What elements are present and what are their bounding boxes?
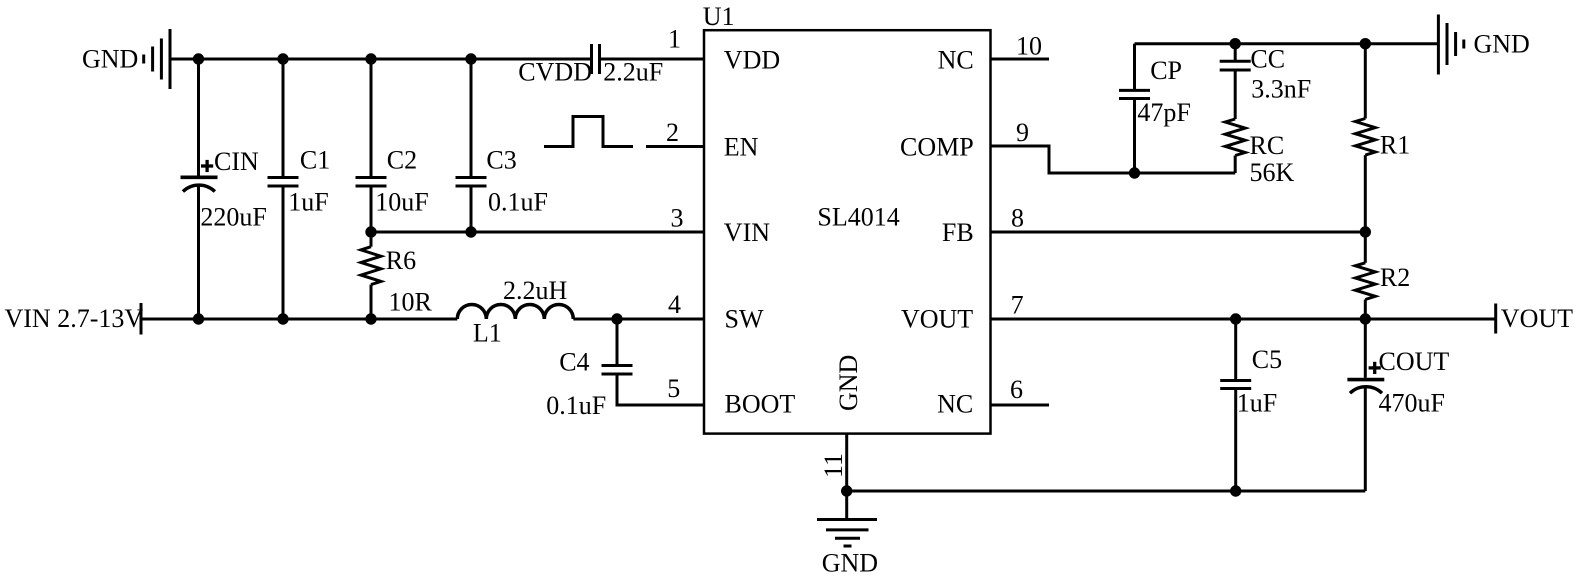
svg-text:1uF: 1uF bbox=[1237, 389, 1277, 418]
svg-text:NC: NC bbox=[937, 389, 973, 418]
svg-text:220uF: 220uF bbox=[200, 203, 266, 232]
svg-text:C4: C4 bbox=[559, 347, 589, 376]
svg-text:L1: L1 bbox=[473, 319, 502, 348]
svg-text:C5: C5 bbox=[1252, 345, 1282, 374]
svg-text:0.1uF: 0.1uF bbox=[488, 188, 548, 217]
svg-text:VDD: VDD bbox=[724, 46, 780, 75]
svg-text:2.2uH: 2.2uH bbox=[503, 276, 568, 305]
svg-text:5: 5 bbox=[667, 374, 680, 403]
svg-text:6: 6 bbox=[1010, 375, 1023, 404]
svg-text:3.3nF: 3.3nF bbox=[1251, 75, 1311, 104]
svg-text:2: 2 bbox=[666, 118, 679, 147]
svg-text:R1: R1 bbox=[1380, 131, 1410, 160]
svg-text:BOOT: BOOT bbox=[725, 389, 796, 418]
svg-text:10uF: 10uF bbox=[375, 187, 428, 216]
svg-text:GND: GND bbox=[82, 45, 138, 74]
svg-text:VOUT: VOUT bbox=[901, 304, 973, 333]
svg-text:CP: CP bbox=[1150, 56, 1182, 85]
svg-text:NC: NC bbox=[938, 46, 974, 75]
svg-text:VIN: VIN bbox=[724, 218, 770, 247]
svg-text:C2: C2 bbox=[387, 146, 417, 175]
svg-text:2.2uF: 2.2uF bbox=[603, 58, 663, 87]
svg-text:0.1uF: 0.1uF bbox=[546, 391, 606, 420]
svg-text:COMP: COMP bbox=[900, 133, 974, 162]
svg-text:3: 3 bbox=[671, 204, 684, 233]
svg-text:CIN: CIN bbox=[214, 147, 259, 176]
svg-text:SL4014: SL4014 bbox=[817, 203, 899, 232]
svg-text:C3: C3 bbox=[486, 146, 516, 175]
svg-text:GND: GND bbox=[822, 549, 878, 578]
svg-text:U1: U1 bbox=[703, 2, 735, 31]
svg-text:CVDD: CVDD bbox=[518, 58, 592, 87]
svg-text:RC: RC bbox=[1250, 131, 1285, 160]
svg-text:56K: 56K bbox=[1250, 158, 1295, 187]
svg-text:COUT: COUT bbox=[1379, 347, 1450, 376]
svg-text:GND: GND bbox=[834, 355, 863, 411]
svg-text:VOUT: VOUT bbox=[1501, 304, 1573, 333]
svg-text:9: 9 bbox=[1016, 118, 1029, 147]
svg-text:R6: R6 bbox=[386, 246, 416, 275]
svg-text:1uF: 1uF bbox=[288, 187, 328, 216]
svg-text:FB: FB bbox=[942, 218, 974, 247]
svg-text:GND: GND bbox=[1474, 30, 1530, 59]
svg-text:470uF: 470uF bbox=[1379, 389, 1445, 418]
svg-text:1: 1 bbox=[668, 25, 681, 54]
svg-text:8: 8 bbox=[1011, 204, 1024, 233]
svg-text:R2: R2 bbox=[1380, 263, 1410, 292]
svg-text:10: 10 bbox=[1016, 31, 1042, 60]
svg-text:11: 11 bbox=[819, 453, 848, 478]
svg-text:4: 4 bbox=[668, 290, 681, 319]
svg-text:SW: SW bbox=[725, 304, 764, 333]
svg-text:10R: 10R bbox=[389, 287, 433, 316]
svg-text:C1: C1 bbox=[300, 146, 330, 175]
svg-text:47pF: 47pF bbox=[1137, 98, 1190, 127]
svg-text:VIN 2.7-13V: VIN 2.7-13V bbox=[5, 304, 144, 333]
svg-text:7: 7 bbox=[1011, 291, 1024, 320]
svg-text:EN: EN bbox=[724, 133, 759, 162]
svg-text:CC: CC bbox=[1250, 44, 1285, 73]
